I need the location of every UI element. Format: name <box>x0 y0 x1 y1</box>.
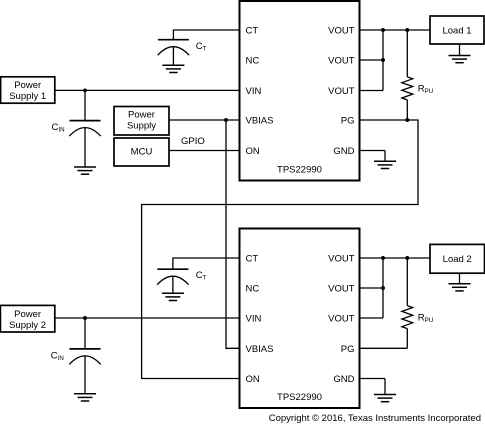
power supply 1 box <box>1 77 55 103</box>
junction node VBIAS <box>224 118 228 122</box>
svg-text:CT: CT <box>246 26 259 37</box>
wire VIN net: power supply 1 to U1 VIN <box>55 89 240 91</box>
svg-text:VOUT: VOUT <box>328 56 355 67</box>
wire CIN2 junction to capacitor <box>84 318 86 349</box>
svg-text:MCU: MCU <box>131 146 153 157</box>
svg-text:NC: NC <box>246 56 260 67</box>
svg-text:VOUT: VOUT <box>328 86 355 97</box>
svg-text:GPIO: GPIO <box>181 136 205 147</box>
capacitor CT2 <box>157 269 188 285</box>
wire CIN2 capacitor to ground <box>84 356 86 394</box>
junction node VOUT2 <box>381 58 385 62</box>
svg-text:VOUT: VOUT <box>328 254 355 265</box>
svg-text:VOUT: VOUT <box>328 314 355 325</box>
wire CT2 capacitor to ground <box>172 276 174 293</box>
svg-text:CT: CT <box>246 254 259 265</box>
Load 2 box <box>430 244 485 273</box>
wire U2 VOUT3 stub <box>360 317 384 319</box>
wire CIN1 junction to capacitor <box>84 90 86 120</box>
svg-text:Copyright © 2016, Texas Instru: Copyright © 2016, Texas Instruments Inco… <box>269 413 481 424</box>
svg-text:VBIAS: VBIAS <box>246 344 274 355</box>
wire VIN2 net: power supply 2 to U2 VIN <box>55 317 240 319</box>
wire CT1 capacitor to ground <box>172 47 174 65</box>
svg-text:PG: PG <box>341 344 355 355</box>
wire GPIO: MCU to U1 ON <box>169 150 240 152</box>
resistor RPU1 <box>402 77 413 100</box>
ground at U2 GND <box>374 395 396 402</box>
wire VOUTb vertical tie x383 <box>382 258 384 318</box>
svg-text:Power: Power <box>128 110 155 121</box>
wire VOUT1b net: U2 VOUT to Load 2 <box>360 257 431 259</box>
capacitor CT1 <box>158 40 189 56</box>
junction node VOUT1b at x383 <box>381 256 385 260</box>
svg-text:Supply 2: Supply 2 <box>9 320 46 331</box>
wire U2 CT to CT2 capacitor <box>173 258 240 269</box>
wire U2 GND stub <box>360 378 386 380</box>
junction node VOUT1 at RPU1 <box>405 28 409 32</box>
svg-text:VBIAS: VBIAS <box>246 116 274 127</box>
svg-text:TPS22990: TPS22990 <box>277 392 322 403</box>
wire Load 2 to ground <box>459 273 461 283</box>
svg-text:Supply 1: Supply 1 <box>9 91 46 102</box>
Load 1 box <box>430 16 484 44</box>
wire PG1 net: U1 PG to U2 ON <box>142 120 418 379</box>
svg-text:ON: ON <box>246 146 260 157</box>
ground at CT1 <box>162 65 184 72</box>
wire VOUT1 to resistor RPU1 top <box>406 30 408 77</box>
ground at CIN1 <box>74 167 96 174</box>
svg-text:VOUT: VOUT <box>328 26 355 37</box>
junction node VIN1 / CIN1 <box>83 88 87 92</box>
wire U2 VOUT2 stub <box>360 287 384 289</box>
wire U1 CT to CT1 capacitor <box>173 30 239 40</box>
svg-text:VIN: VIN <box>246 314 262 325</box>
ground at Load 1 <box>449 56 471 63</box>
resistor RPU2 <box>402 306 413 329</box>
ground at CIN2 <box>74 394 96 401</box>
svg-text:Load 1: Load 1 <box>442 25 471 36</box>
wire VBIAS net: power supply to U1 VBIAS <box>169 119 240 121</box>
power supply 2 box <box>0 305 54 332</box>
wire U1 VOUT3 stub <box>360 90 384 92</box>
wire resistor RPU2 bottom to PG2 <box>406 329 408 349</box>
wire VOUT1 net: U1 VOUT to Load 1 <box>360 29 431 31</box>
svg-text:TPS22990: TPS22990 <box>277 164 322 175</box>
wire Load 1 to ground <box>459 44 461 55</box>
junction node VIN2 / CIN2 <box>83 316 87 320</box>
ground at CT2 <box>162 293 184 300</box>
svg-text:GND: GND <box>333 374 354 385</box>
svg-text:Power: Power <box>14 80 41 91</box>
svg-text:PG: PG <box>341 116 355 127</box>
IC U2 TPS22990 box <box>240 229 360 409</box>
svg-text:NC: NC <box>246 284 260 295</box>
wire VOUT vertical tie x383 <box>382 30 384 91</box>
svg-text:Load 2: Load 2 <box>443 254 472 265</box>
wire U1 GND stub <box>360 150 386 152</box>
capacitor CIN2 <box>69 349 100 365</box>
ground at U1 GND <box>374 161 396 168</box>
wire VBIAS junction down to U2 VBIAS <box>226 120 240 348</box>
junction node VOUT1 at x383 <box>381 28 385 32</box>
svg-text:Power: Power <box>14 309 41 320</box>
junction node PG1 at RPU1 <box>405 118 409 122</box>
wire PG2 net: U2 PG to pull-up <box>360 347 408 349</box>
wire U2 GND to ground <box>384 379 386 395</box>
svg-text:Supply: Supply <box>127 120 156 131</box>
IC U1 TPS22990 box <box>240 1 360 181</box>
ground at Load 2 <box>449 284 471 291</box>
capacitor CIN1 <box>69 121 100 137</box>
svg-text:VIN: VIN <box>246 86 262 97</box>
wire U1 VOUT2 stub <box>360 59 384 61</box>
wire resistor RPU1 bottom to PG net <box>406 100 408 120</box>
junction node VOUT1b at RPU2 <box>405 256 409 260</box>
wire CIN1 capacitor to ground <box>84 128 86 167</box>
svg-text:GND: GND <box>333 146 354 157</box>
wire U1 GND to ground <box>384 151 386 162</box>
svg-text:ON: ON <box>246 374 260 385</box>
MCU box <box>114 138 169 166</box>
junction node VOUT2b <box>381 286 385 290</box>
power supply (VBIAS) box <box>114 107 169 136</box>
svg-text:VOUT: VOUT <box>328 284 355 295</box>
wire VOUT1b to resistor RPU2 top <box>406 258 408 306</box>
